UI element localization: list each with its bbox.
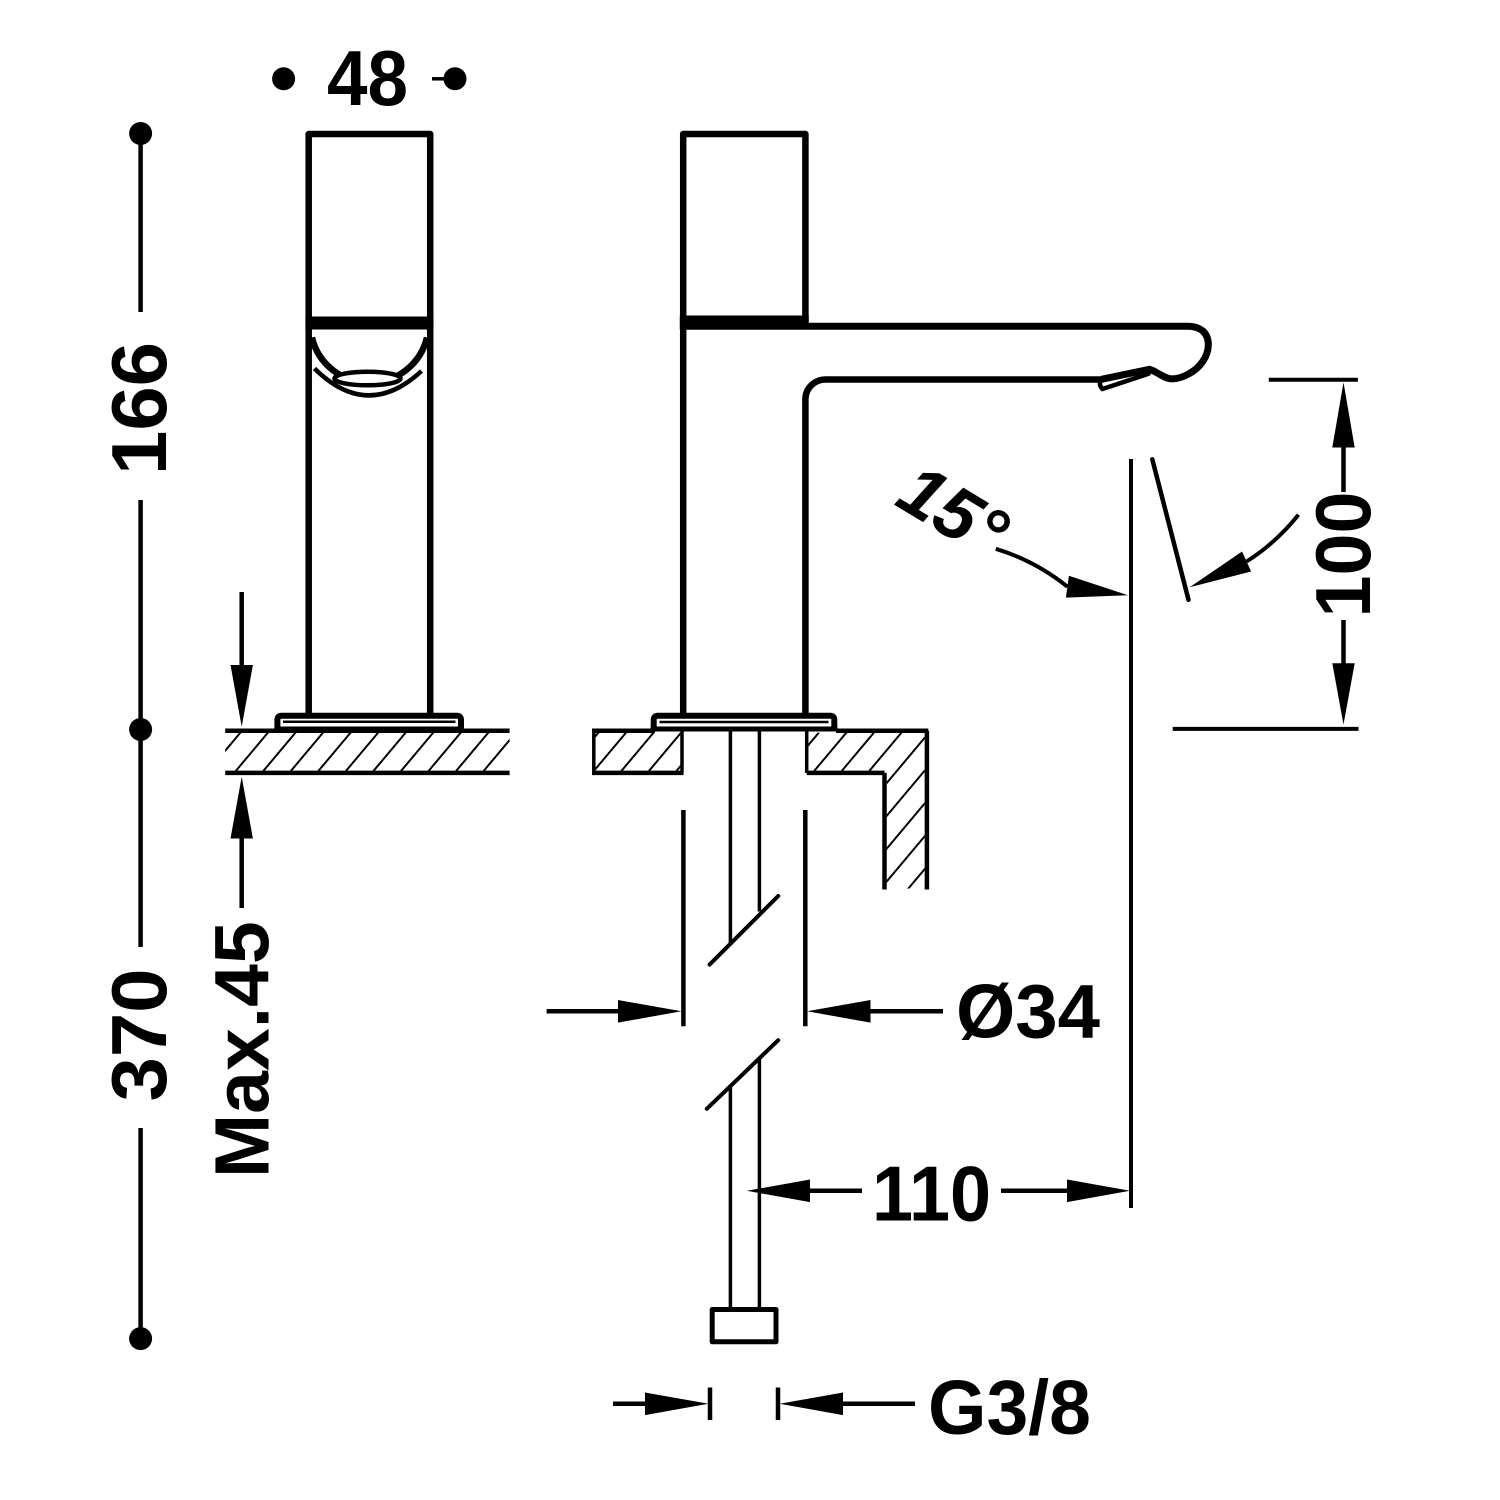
svg-text:370: 370 [95,969,183,1102]
svg-text:G3/8: G3/8 [928,1365,1091,1451]
svg-text:110: 110 [872,1150,991,1238]
svg-text:Ø34: Ø34 [956,970,1100,1055]
svg-text:Max.45: Max.45 [200,921,286,1178]
svg-text:48: 48 [327,34,408,122]
svg-text:166: 166 [95,342,183,475]
svg-text:100: 100 [1299,492,1387,618]
